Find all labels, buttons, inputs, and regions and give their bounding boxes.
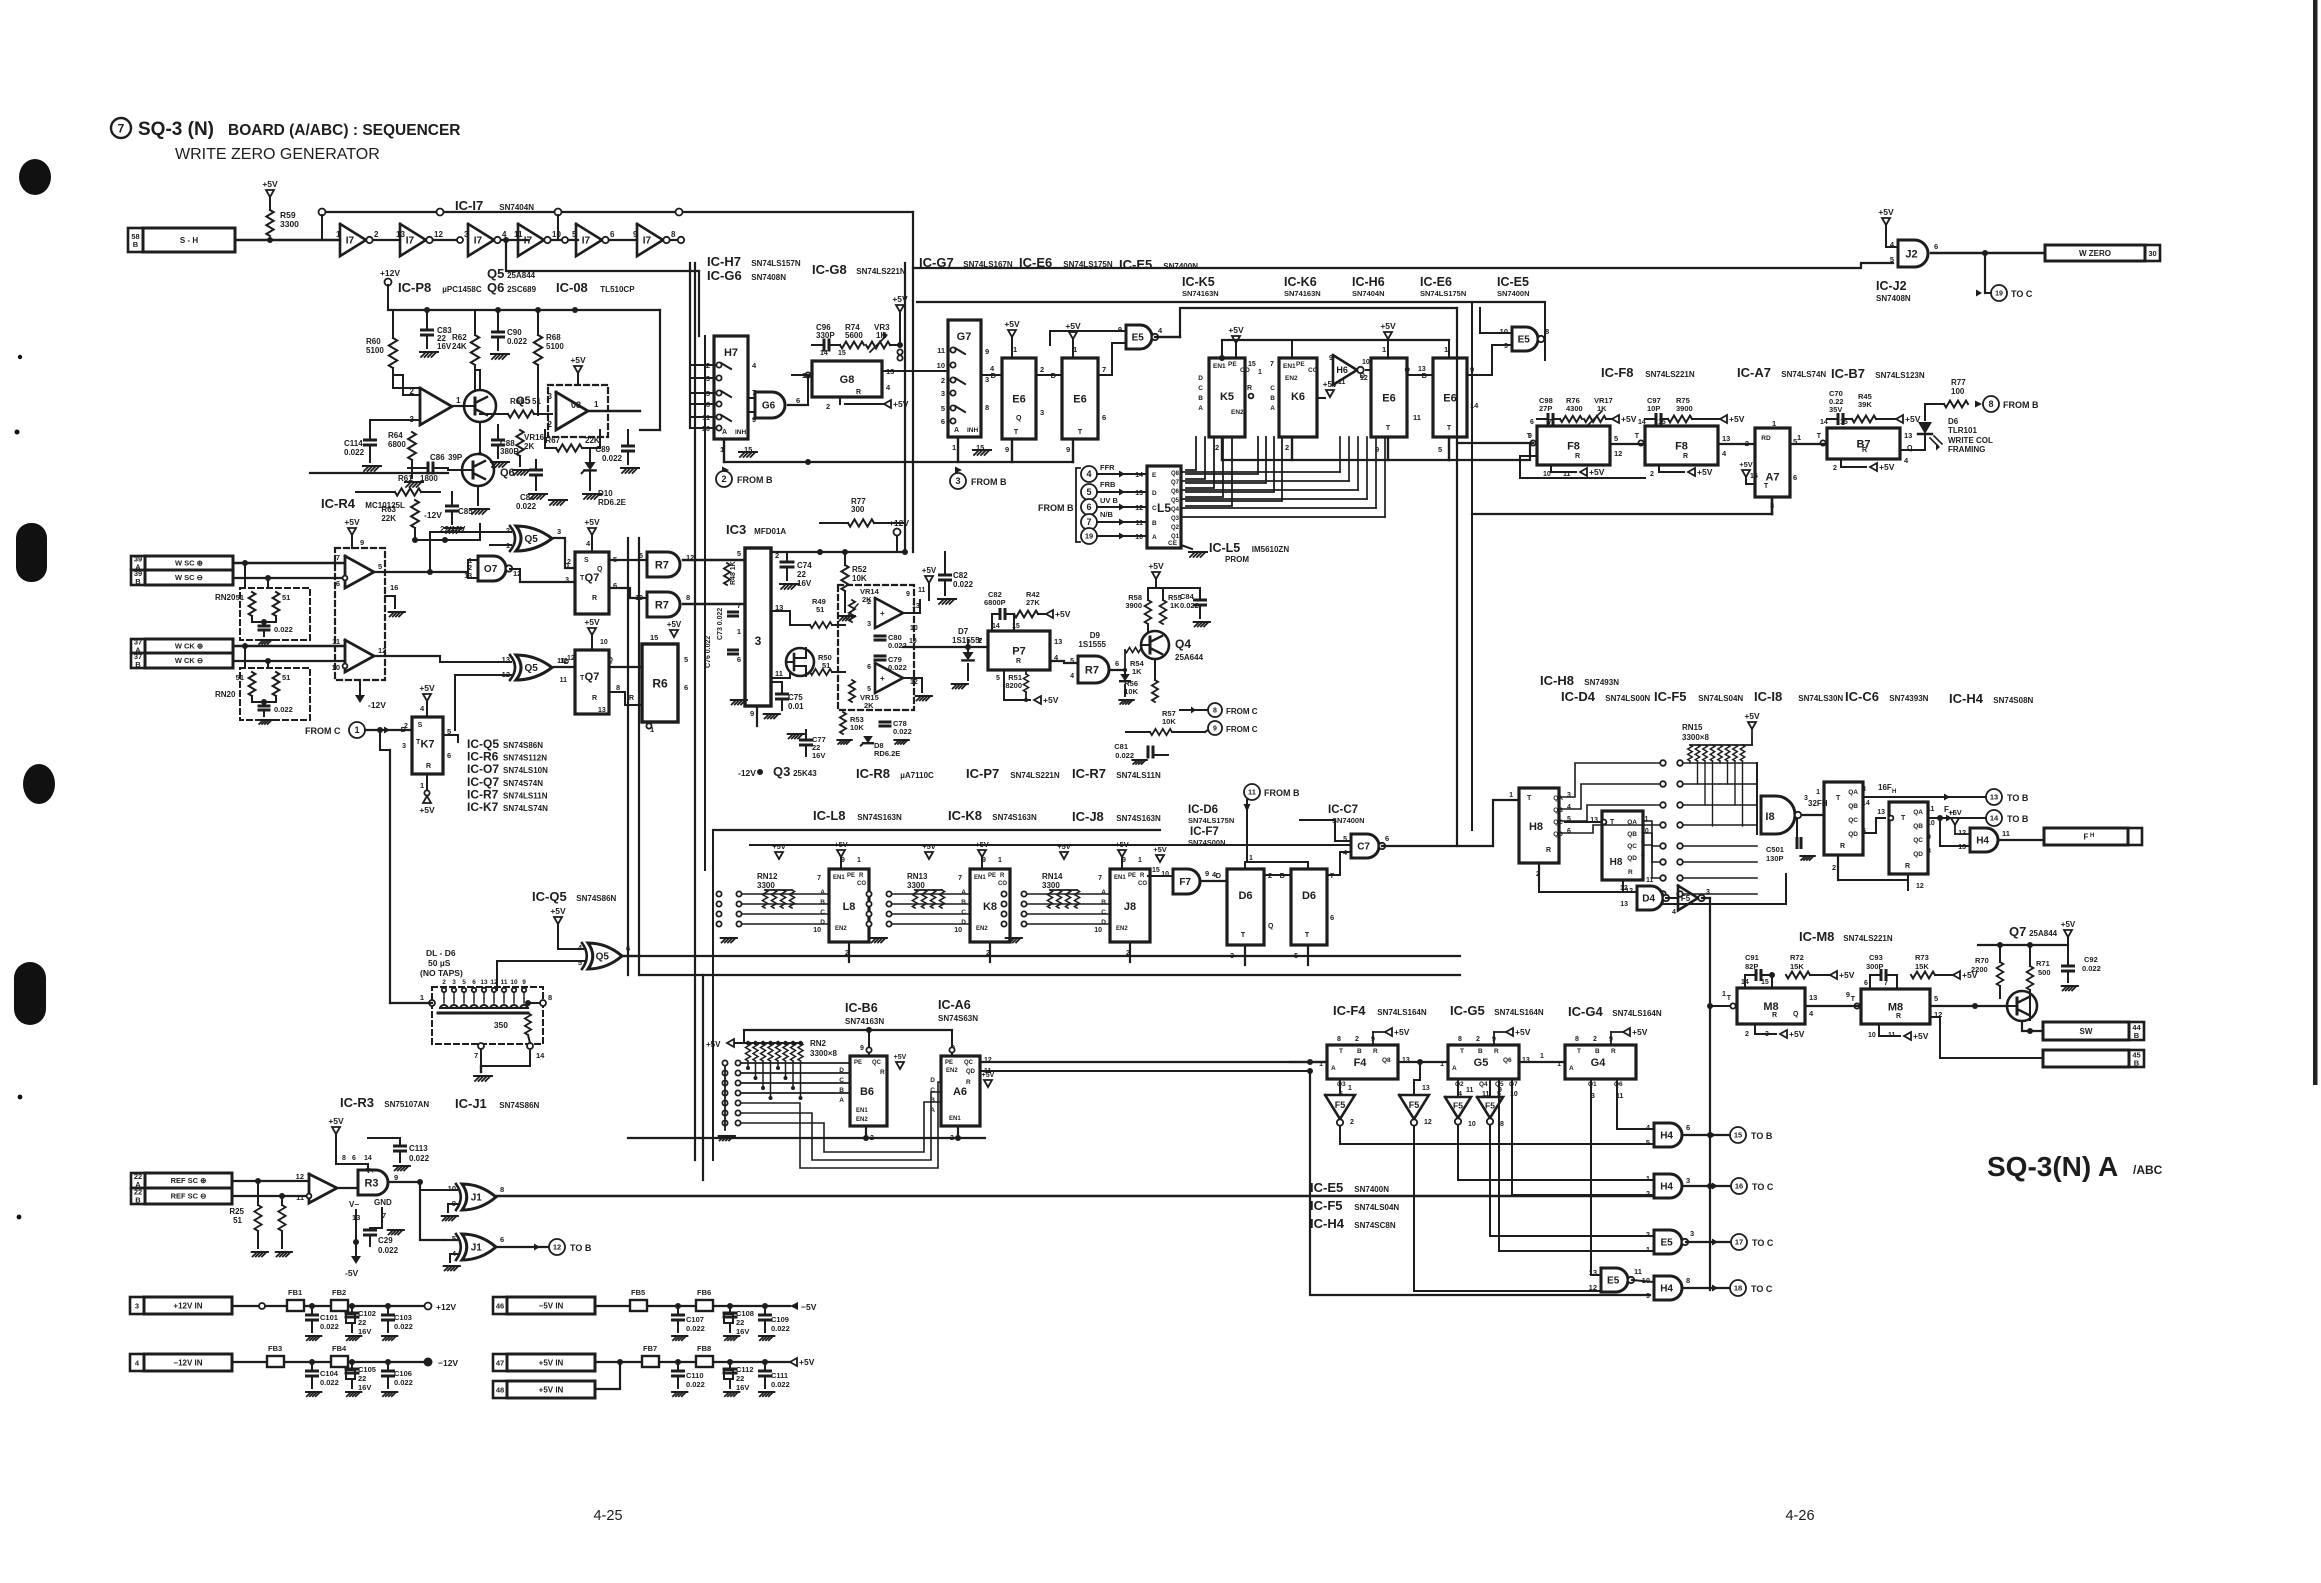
resistor R68 5100: [534, 335, 542, 365]
svg-text:6: 6: [941, 417, 945, 426]
wire G8 out to G7: [882, 370, 948, 372]
svg-text:I7: I7: [346, 236, 355, 247]
svg-text:19: 19: [1085, 532, 1093, 541]
transistor Q6: [462, 454, 494, 486]
svg-text:SN7400N: SN7400N: [1497, 289, 1530, 298]
svg-text:IC-J2: IC-J2: [1876, 279, 1907, 293]
circled 8 FROM C: [1208, 703, 1222, 717]
svg-text:IC-A6: IC-A6: [938, 998, 971, 1012]
svg-text:5: 5: [378, 562, 382, 571]
svg-text:6: 6: [1102, 413, 1106, 422]
svg-text:FFR: FFR: [1100, 463, 1115, 472]
vertical trunk x1465: [1471, 302, 1473, 830]
svg-text:FROM B: FROM B: [1038, 503, 1074, 513]
svg-text:T: T: [1386, 425, 1391, 432]
wire F4 input: [1290, 1061, 1327, 1063]
wire H4b output to TO B: [1682, 1134, 1730, 1136]
AND gate H4 e (to C): [1654, 1276, 1682, 1300]
svg-text:22K: 22K: [381, 514, 396, 523]
svg-text:7: 7: [737, 601, 741, 610]
svg-text:6: 6: [1864, 980, 1868, 987]
wire Q7a Qbar to R7b: [609, 588, 647, 598]
svg-text:2: 2: [548, 420, 553, 429]
svg-text:10: 10: [332, 663, 340, 672]
svg-text:1: 1: [1646, 1245, 1650, 1254]
svg-text:T: T: [1527, 795, 1532, 802]
svg-text:3300×8: 3300×8: [1682, 733, 1709, 742]
svg-text:22: 22: [736, 1318, 744, 1327]
+5V at F8a: [1612, 415, 1619, 423]
R4 amp b: [345, 640, 374, 672]
transistor Q4: [1141, 631, 1169, 659]
wire Q7b to R6: [609, 666, 642, 668]
registration mark dot 1: [19, 159, 51, 195]
svg-text:SN74LS74N: SN74LS74N: [503, 804, 548, 813]
svg-text:+5V: +5V: [922, 566, 937, 575]
wire K7 T input: [380, 730, 390, 750]
svg-text:6: 6: [1530, 419, 1534, 426]
svg-text:T: T: [1851, 996, 1856, 1003]
svg-text:Q4: Q4: [1479, 1081, 1488, 1088]
svg-text:-5V: -5V: [345, 1268, 359, 1278]
capacitor C105 22/16V: [346, 1370, 355, 1379]
svg-text:Q: Q: [1268, 923, 1274, 930]
svg-text:IC-F5: IC-F5: [1654, 689, 1687, 704]
svg-text:K7: K7: [420, 738, 434, 750]
svg-text:R: R: [1000, 873, 1005, 879]
capacitor C85 22/16V: [447, 505, 458, 508]
capacitor C110 0.022: [673, 1370, 684, 1373]
svg-text:I8: I8: [1765, 811, 1774, 823]
svg-text:CO: CO: [998, 881, 1007, 887]
svg-text:3300×8: 3300×8: [810, 1049, 837, 1058]
svg-text:W SC ⊕: W SC ⊕: [175, 559, 204, 568]
circled 6 UVB input: [1081, 499, 1097, 515]
AND gate H4 b (to B): [1654, 1123, 1682, 1147]
svg-text:15: 15: [1152, 867, 1160, 874]
+5V pair at L8: [775, 852, 783, 859]
wire E6d to E5b: [1467, 345, 1512, 375]
svg-text:+5V: +5V: [1004, 319, 1020, 329]
connector W SC + (39/A): [131, 556, 145, 570]
wire inverter chain output: [670, 239, 678, 241]
svg-text:EN1: EN1: [1114, 875, 1126, 881]
svg-text:EN1: EN1: [1283, 363, 1296, 370]
+5V at R3: [332, 1127, 340, 1134]
svg-text:IC-C7: IC-C7: [1328, 804, 1358, 816]
svg-text:M8: M8: [1888, 1001, 1903, 1013]
vertical trunk x690: [689, 263, 691, 428]
svg-text:2: 2: [867, 599, 871, 606]
wire H4c output to TO C: [1682, 1185, 1731, 1187]
svg-text:RN15: RN15: [1682, 723, 1703, 732]
svg-text:8: 8: [1337, 1036, 1341, 1043]
svg-text:E6: E6: [1382, 392, 1395, 404]
svg-text:H8: H8: [1529, 821, 1543, 833]
svg-text:IC-K8: IC-K8: [948, 808, 982, 823]
one-shot M8 a: [1737, 988, 1805, 1024]
svg-text:1: 1: [1772, 419, 1776, 428]
svg-text:FRB: FRB: [1100, 480, 1116, 489]
NAND gate E5 a: [1126, 325, 1152, 349]
svg-text:EN2: EN2: [946, 1068, 958, 1074]
wire H7 to G8: [807, 375, 809, 405]
wire F8b to A7: [1718, 443, 1755, 445]
L5 to K5/K6 wire bundle: [1186, 437, 1282, 506]
svg-text:+5V: +5V: [1394, 1027, 1410, 1037]
NAND gate D4: [1637, 886, 1663, 910]
ferrite bead FB5: [630, 1300, 647, 1311]
wire REF SC+ to R3: [232, 1180, 309, 1182]
ferrite bead FB4: [331, 1356, 348, 1367]
registration speck a: [18, 355, 22, 359]
ferrite bead FB8: [696, 1356, 713, 1367]
connector W CK - (37/B): [131, 653, 145, 668]
svg-text:10: 10: [937, 361, 945, 370]
circled 2 FROM B: [722, 467, 729, 474]
svg-text:R: R: [880, 1069, 885, 1076]
svg-text:SN74LS11N: SN74LS11N: [503, 791, 548, 800]
svg-text:3: 3: [985, 375, 989, 384]
svg-text:4-26: 4-26: [1785, 1508, 1814, 1524]
svg-text:Q7: Q7: [2009, 924, 2026, 939]
svg-text:A: A: [1152, 534, 1157, 541]
vertical trunk x713: [712, 830, 714, 1160]
wire D4 to F5e: [1666, 897, 1678, 899]
svg-text:E6: E6: [1073, 393, 1086, 405]
svg-text:C75: C75: [788, 693, 803, 702]
NAND gate F7: [1173, 869, 1200, 894]
svg-text:QA: QA: [1553, 795, 1563, 802]
svg-text:10: 10: [954, 927, 962, 934]
svg-text:4300: 4300: [1566, 404, 1583, 413]
vertical trunk x695: [694, 263, 696, 1160]
svg-text:R: R: [1862, 447, 1867, 454]
svg-text:16V: 16V: [358, 1383, 371, 1392]
svg-text:I7: I7: [474, 236, 483, 247]
svg-text:−5V IN: −5V IN: [539, 1301, 564, 1310]
svg-text:16V: 16V: [797, 579, 812, 588]
svg-text:+5V: +5V: [584, 517, 600, 527]
svg-text:C101: C101: [320, 1313, 338, 1322]
svg-text:9: 9: [1005, 445, 1009, 454]
svg-text:SW: SW: [2080, 1027, 2093, 1036]
svg-text:SN7400N: SN7400N: [1354, 1185, 1389, 1194]
svg-text:R52: R52: [852, 565, 867, 574]
svg-text:3900: 3900: [1125, 601, 1142, 610]
counter A6: [930, 1045, 992, 1142]
wire B6/A6 +5V top rail: [744, 1029, 952, 1031]
svg-text:CO: CO: [857, 881, 866, 887]
inverter F5 c: [1445, 1097, 1471, 1118]
svg-text:1: 1: [1444, 345, 1448, 354]
connector +12V IN (3): [130, 1297, 144, 1314]
NAND gate E5 b: [1512, 327, 1538, 351]
svg-text:9: 9: [985, 347, 989, 356]
svg-text:10: 10: [1543, 471, 1551, 478]
svg-text:6: 6: [472, 979, 476, 986]
svg-text:IC-R4: IC-R4: [321, 496, 356, 511]
svg-text:13: 13: [480, 979, 488, 986]
svg-text:25A844: 25A844: [2029, 929, 2058, 938]
svg-text:F: F: [2084, 832, 2089, 841]
svg-text:I7: I7: [406, 236, 415, 247]
svg-text:39K: 39K: [1858, 400, 1872, 409]
svg-text:+5V: +5V: [1515, 1027, 1531, 1037]
svg-text:R: R: [1373, 1048, 1378, 1055]
capacitor C75 0.01: [777, 693, 788, 696]
wire inverter feedback down: [506, 240, 699, 271]
svg-text:2: 2: [1355, 1036, 1359, 1043]
svg-text:3300: 3300: [280, 219, 299, 229]
circled 18 TO C: [1730, 1280, 1746, 1296]
svg-text:10: 10: [1868, 1032, 1876, 1039]
svg-text:+5V: +5V: [667, 620, 682, 629]
svg-text:RN2: RN2: [810, 1039, 827, 1048]
svg-text:10K: 10K: [1124, 687, 1138, 696]
AND gate R7 c: [1078, 656, 1109, 683]
wire Q5 emitter down: [479, 422, 481, 455]
page title: SQ-3 (N) BOARD (A/ABC) : SEQUENCER: [111, 118, 461, 163]
svg-text:R: R: [1896, 1013, 1901, 1020]
svg-text:15K: 15K: [1790, 962, 1804, 971]
svg-text:4: 4: [1672, 909, 1676, 916]
svg-text:5: 5: [867, 686, 871, 693]
svg-text:C103: C103: [394, 1313, 412, 1322]
svg-text:SN74LS175N: SN74LS175N: [1063, 260, 1113, 269]
svg-text:10K: 10K: [850, 723, 864, 732]
svg-text:IC-D4: IC-D4: [1561, 689, 1596, 704]
svg-text:16: 16: [390, 583, 398, 592]
flip-flop Q7 a: [564, 539, 618, 614]
counter L8: [813, 857, 869, 962]
svg-text:K6: K6: [1291, 391, 1305, 403]
svg-text:SN74LS164N: SN74LS164N: [1612, 1009, 1662, 1018]
gnd under J8 inputs: [1007, 938, 1012, 943]
svg-text:5600: 5600: [845, 331, 863, 340]
svg-text:6: 6: [737, 655, 741, 664]
svg-text:10: 10: [600, 639, 608, 646]
svg-text:11: 11: [1641, 816, 1649, 823]
ferrite bead FB6: [696, 1300, 713, 1311]
wire H8a R to D4: [1539, 886, 1637, 892]
wire +12V rail: [232, 1305, 424, 1307]
svg-text:D: D: [1101, 919, 1106, 926]
wires input rows to B6: [741, 1063, 850, 1093]
resistor R63 22K: [411, 500, 419, 528]
svg-text:IC-E5: IC-E5: [1310, 1180, 1343, 1195]
svg-text:W CK ⊕: W CK ⊕: [175, 642, 204, 651]
svg-text:T: T: [1836, 795, 1841, 802]
bottom rail K5 row: [1222, 459, 1449, 461]
horizontal low rail y956: [620, 955, 1460, 957]
wire Q6 emitter: [477, 486, 479, 505]
connector W CK + (37/A): [131, 639, 145, 653]
+5V at Q7a: [588, 528, 596, 535]
svg-text:SN74163N: SN74163N: [1284, 289, 1321, 298]
wire C6b QA to TO B: [1928, 817, 1986, 819]
svg-text:9: 9: [1066, 445, 1070, 454]
svg-text:2: 2: [1832, 863, 1836, 872]
svg-text:+5V: +5V: [1632, 1027, 1648, 1037]
svg-text:2: 2: [506, 526, 510, 535]
-5V supply: [355, 1242, 357, 1256]
svg-text:6800: 6800: [388, 440, 406, 449]
svg-text:R: R: [1628, 869, 1633, 876]
svg-text:SQ-3(N) A: SQ-3(N) A: [1987, 1151, 2118, 1182]
capacitor C74 22/16V: [771, 551, 905, 553]
svg-text:51: 51: [233, 1216, 242, 1225]
svg-text:F8: F8: [1567, 440, 1580, 452]
svg-text:2: 2: [1646, 1230, 1650, 1239]
+5V supply at R59: [266, 190, 274, 197]
svg-text:Q: Q: [1016, 415, 1022, 422]
svg-text:35V: 35V: [1829, 405, 1842, 414]
AND gate R7 b: [647, 592, 680, 617]
svg-text:R: R: [629, 695, 634, 702]
wire G5 to G4: [1519, 1061, 1565, 1063]
svg-text:FRAMING: FRAMING: [1948, 445, 1985, 454]
flip-flop Q7 b: [560, 650, 621, 714]
svg-text:15: 15: [1750, 473, 1758, 480]
NAND gate I8 (8-input): [1761, 796, 1795, 834]
svg-text:SN74LS30N: SN74LS30N: [1798, 694, 1843, 703]
svg-text:R: R: [1683, 453, 1688, 460]
svg-text:9: 9: [1329, 355, 1333, 362]
circled 5 FRB input: [1081, 484, 1097, 500]
svg-text:1: 1: [1013, 345, 1017, 354]
svg-text:QD: QD: [1913, 851, 1923, 858]
svg-text:6: 6: [867, 664, 871, 671]
wire E6a to E6b: [1036, 374, 1062, 376]
wire R3 to J1a: [420, 1182, 457, 1190]
wire F7 out to D6: [1200, 880, 1227, 882]
NAND gate C7: [1351, 834, 1379, 858]
svg-text:C: C: [820, 909, 825, 916]
svg-text:Q3: Q3: [1337, 1081, 1346, 1088]
svg-text:J1: J1: [471, 1243, 483, 1254]
svg-text:VR16: VR16: [524, 433, 545, 442]
svg-text:8: 8: [1641, 852, 1645, 859]
svg-text:QD: QD: [966, 1069, 976, 1075]
svg-text:RN13: RN13: [907, 872, 928, 881]
svg-text:C501: C501: [1766, 845, 1784, 854]
vertical trunk x1452: [1456, 308, 1458, 846]
svg-text:10: 10: [448, 1184, 456, 1193]
svg-text:−5V: −5V: [801, 1302, 817, 1312]
inverter I7 unit 1 (pins 1->2): [336, 224, 400, 256]
svg-text:4: 4: [1567, 804, 1571, 811]
+5V at RN15: [1748, 722, 1756, 729]
svg-text:47: 47: [496, 1358, 504, 1367]
wire M8a to M8b: [1805, 1005, 1861, 1007]
svg-text:3: 3: [548, 392, 553, 401]
NAND gate R3: [358, 1170, 388, 1195]
svg-text:IC-F5: IC-F5: [1310, 1198, 1343, 1213]
svg-text:F5: F5: [1335, 1100, 1346, 1110]
input stubs K8: [866, 891, 970, 926]
wire F4 to G5: [1398, 1061, 1448, 1063]
ferrite bead FB7: [642, 1356, 659, 1367]
flip-flop K7: [401, 704, 452, 790]
capacitor C77 22/16V: [801, 739, 812, 742]
svg-text:2: 2: [1476, 1036, 1480, 1043]
svg-text:MFD01A: MFD01A: [754, 527, 786, 536]
svg-text:+5V: +5V: [584, 617, 600, 627]
svg-text:10: 10: [1094, 927, 1102, 934]
svg-text:B: B: [2134, 1058, 2140, 1067]
+5V at M8b reset: [1878, 1024, 1880, 1036]
svg-text:C114: C114: [344, 439, 363, 448]
svg-text:Q6: Q6: [1171, 489, 1180, 495]
wire J2 output to W ZERO: [1931, 252, 2045, 254]
svg-text:1: 1: [420, 781, 424, 790]
counter C6 b: [1877, 802, 1935, 890]
svg-text:C111: C111: [771, 1371, 788, 1380]
wire into Q5a: [430, 532, 511, 572]
svg-text:R72: R72: [1790, 953, 1804, 962]
svg-text:C91: C91: [1745, 953, 1759, 962]
svg-text:IC-F7: IC-F7: [1190, 826, 1219, 838]
+12V output: [425, 1303, 432, 1310]
svg-text:FB3: FB3: [268, 1344, 282, 1353]
svg-text:REF SC ⊕: REF SC ⊕: [171, 1176, 208, 1185]
wire H8a outputs to jumpers: [1559, 763, 1660, 833]
svg-text:Q4: Q4: [1171, 507, 1180, 513]
svg-text:T: T: [1447, 425, 1452, 432]
svg-text:+5V: +5V: [1148, 561, 1164, 571]
svg-text:R7: R7: [655, 599, 669, 611]
svg-text:5: 5: [1086, 487, 1091, 497]
AND gate J2: [1898, 240, 1928, 267]
svg-text:C: C: [961, 909, 966, 916]
wire W CK- to R4: [233, 660, 345, 662]
wire IC-08 output: [588, 410, 640, 412]
svg-text:7: 7: [958, 875, 962, 882]
registration speck d: [17, 1215, 22, 1220]
svg-text:T: T: [1764, 483, 1769, 490]
wire rail corner to G8 block: [912, 212, 914, 552]
+5V at A6: [984, 1080, 992, 1087]
wire M8b Q to 45 connector: [1930, 1017, 2043, 1058]
svg-text:6: 6: [1115, 659, 1119, 668]
svg-text:10: 10: [1468, 1121, 1476, 1128]
svg-text:B: B: [135, 577, 141, 586]
svg-text:08: 08: [571, 400, 581, 410]
wire H4a to FH box: [1998, 839, 2044, 841]
svg-text:11: 11: [2002, 829, 2010, 838]
wire Q6 base left: [448, 469, 462, 471]
one-shot G8: [812, 361, 882, 397]
svg-text:+5V: +5V: [834, 840, 848, 849]
input stub circles B6/A6: [719, 1060, 741, 1140]
svg-text:5: 5: [1614, 434, 1618, 443]
J1b gnd input: [450, 1254, 457, 1262]
jumper circles column b: [1677, 760, 1757, 897]
svg-text:13: 13: [912, 603, 920, 610]
svg-text:IC-G5: IC-G5: [1450, 1003, 1485, 1018]
svg-text:1: 1: [1816, 789, 1820, 796]
wire -12V feed: [442, 537, 448, 543]
resistor R64 6800: [408, 432, 416, 460]
svg-text:SN74S86N: SN74S86N: [499, 1101, 539, 1110]
svg-text:8: 8: [616, 683, 620, 692]
wire Q5c output: [622, 955, 640, 957]
svg-text:0.022: 0.022: [888, 641, 907, 650]
svg-text:1: 1: [336, 230, 341, 239]
svg-text:SN74LS221N: SN74LS221N: [1843, 934, 1893, 943]
svg-text:8: 8: [985, 403, 989, 412]
